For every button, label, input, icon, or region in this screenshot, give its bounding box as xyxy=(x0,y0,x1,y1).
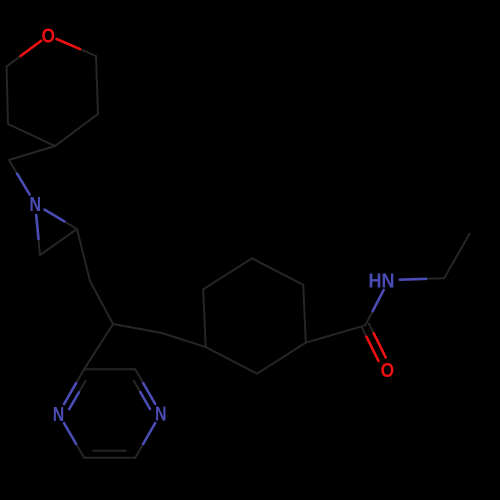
svg-text:O: O xyxy=(381,360,395,382)
bond Cb-Cc (aziridine) xyxy=(40,229,77,255)
bond Q-W1 xyxy=(113,324,162,333)
bond C3-C4 xyxy=(55,114,98,146)
svg-text:N: N xyxy=(29,194,41,216)
bond C3p=N4p main line (pyrazine double) xyxy=(135,369,147,390)
bond C4-CH2 xyxy=(9,146,55,160)
bond R6-R1 (ring) xyxy=(203,258,252,289)
bond CH2-N1 (amine) xyxy=(9,160,21,181)
bond N-ethyl C xyxy=(418,277,444,280)
svg-text:HN: HN xyxy=(369,270,395,292)
bond C6-O1 (tetrahydropyran O, left) xyxy=(7,51,27,66)
bond C=O line 2 xyxy=(369,324,379,344)
bond W1-ring xyxy=(162,333,206,347)
bond C2p=N1p inner line xyxy=(76,381,86,398)
bond C5-C6 xyxy=(7,66,8,124)
bond R2-R3 (ring) xyxy=(303,285,306,343)
bond Cb-V1 xyxy=(77,229,90,281)
bond C4-C5 xyxy=(8,124,55,146)
bond ethyl C-CH3 xyxy=(444,234,469,278)
bond C5p=C6p (pyrazine bottom double) xyxy=(84,457,135,459)
bond V1-Q xyxy=(90,281,113,324)
bond N1p-C6p (pyrazine) xyxy=(72,437,84,458)
bond R4-R5 (ring) xyxy=(206,347,257,374)
bond C2-O1 (tetrahydropyran O, right) xyxy=(73,46,96,56)
bond C2p-C3p (pyrazine top edge) xyxy=(84,368,135,370)
bond C=O line 1 xyxy=(362,327,372,347)
bond Q-pyrazine xyxy=(84,324,113,369)
bond C3p=N4p inner line xyxy=(134,381,144,398)
svg-text:N: N xyxy=(155,404,167,426)
bond ring-carbonyl C xyxy=(306,325,366,342)
bond C5p=C6p inner line xyxy=(93,450,126,452)
svg-text:O: O xyxy=(42,26,56,48)
bond C2p=N1p main line (pyrazine double) xyxy=(72,369,84,390)
bond carbonylC-N amide xyxy=(365,304,376,325)
bond R3-R4 (ring) xyxy=(257,343,306,374)
bond R5-R6 (ring) xyxy=(203,289,206,347)
bond C2-C3 xyxy=(96,56,98,114)
bond R1-R2 (ring) xyxy=(252,258,303,285)
bond N4p-C5p (pyrazine) xyxy=(135,437,147,458)
bond N1-Cc (aziridine) xyxy=(38,231,40,255)
bond N1-Cb (aziridine) xyxy=(57,217,77,229)
svg-text:N: N xyxy=(53,404,65,426)
